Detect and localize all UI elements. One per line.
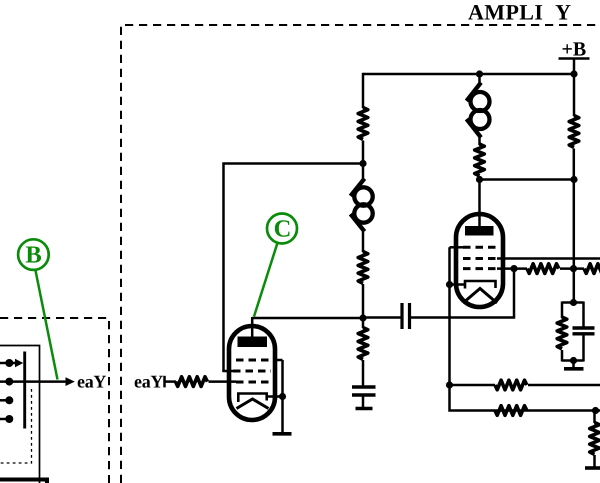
resistor R4 <box>475 144 485 176</box>
beam lead 1 with arrowhead <box>0 359 23 368</box>
wire node A to coupling cap C2 <box>363 316 401 319</box>
junction dot RC top <box>570 299 577 306</box>
V2 g1 lead right <box>497 267 527 270</box>
junction dot grid bias node <box>570 265 577 272</box>
wire C2 to V2 grid riser <box>411 269 514 318</box>
wire rail to L2 <box>478 74 481 85</box>
RC network top tee <box>562 301 584 304</box>
bottom-left solid box <box>0 480 47 483</box>
junction dot feedback row 1 <box>446 381 453 388</box>
top supply rail <box>363 73 574 76</box>
ground under RC <box>564 367 584 371</box>
C1 stub to ground <box>362 395 365 408</box>
+B stub to rail <box>573 59 576 75</box>
resistor R2 <box>358 252 368 284</box>
RC right branch upper stub <box>582 302 585 329</box>
input terminal tick <box>163 376 166 388</box>
V1 anode lead <box>251 317 254 337</box>
CRT inner dotted box <box>0 389 32 463</box>
V2 g2 lead right (off page) <box>497 257 600 260</box>
resistor R6 (cathode RC) <box>557 317 567 349</box>
wire resistor to V1 grid <box>209 380 237 383</box>
wire R11 to ground <box>593 455 596 467</box>
wire row 1 off page <box>528 384 600 387</box>
wire R4 to V2 anode <box>478 177 481 227</box>
wire L1 to R2 <box>362 230 365 253</box>
resistor R7 (grid bias left) <box>527 264 559 274</box>
callout circle B <box>18 239 49 270</box>
V2 cathode bar <box>465 281 496 289</box>
junction dot +B column / anode feed <box>570 176 577 183</box>
resistor R3 (to decoupling cap) <box>358 328 368 360</box>
V1 cathode lead right <box>267 395 283 398</box>
dashed amplifier boundary box (AMPLI Y) <box>121 25 600 483</box>
resistor R-grid (series input) <box>176 377 208 387</box>
capacitor C1 plates <box>352 387 376 395</box>
node dot pin 4 <box>5 415 13 423</box>
svg-text:C: C <box>274 216 292 243</box>
resistor R10 (row 2) <box>495 406 527 416</box>
output wire with arrow to eaY terminal <box>26 377 75 386</box>
inductor L2 (loop coil) <box>467 83 490 138</box>
junction dot g1/C2 riser <box>510 265 517 272</box>
+B terminal underline <box>559 57 590 60</box>
tube V1 envelope <box>229 326 275 420</box>
node dot pin 1 <box>5 359 13 367</box>
wire R7 to bias node <box>560 267 584 270</box>
V1 g3 lead right <box>274 359 283 362</box>
junction dot node A (V1 anode node) <box>359 314 366 321</box>
svg-text:eaY: eaY <box>77 372 106 392</box>
wire R3 to C1 <box>362 360 365 387</box>
resistor R5 (+B column) <box>569 116 579 148</box>
wire g3/cathode column down <box>450 247 600 410</box>
wire L2 to R4 <box>478 135 481 145</box>
wire feedback row 1 <box>450 384 496 387</box>
V2 anode plate <box>465 226 494 236</box>
junction dot rail right end <box>570 70 577 77</box>
V2 grid g2 (dashed) <box>463 257 497 260</box>
junction dot V2 cathode <box>446 281 453 288</box>
V1 g2 lead left <box>222 370 234 373</box>
V2 g3 lead left <box>450 246 465 249</box>
deflection plate bar <box>23 352 26 429</box>
V1 cathode bar <box>238 394 266 403</box>
beam lead 3 <box>0 399 9 402</box>
resistor R1 (left dropping) <box>358 108 368 140</box>
V1 anode plate <box>238 337 268 348</box>
wire rail to R1 <box>362 73 365 108</box>
V1 grid g1 (dashed) <box>236 381 271 384</box>
wire R2 to node A <box>362 284 365 328</box>
junction dot cathode V1 <box>279 393 286 400</box>
wire R11 stub <box>593 411 596 423</box>
V2 cathode chevron <box>463 289 497 304</box>
RC network bottom tee <box>562 359 584 362</box>
ground under C1 <box>356 407 373 411</box>
resistor R9 (row 1) <box>495 380 527 390</box>
wire R5 down to RC network <box>573 149 576 304</box>
wire R1 to L1 <box>362 141 365 182</box>
wire anode node to +B column <box>480 178 574 181</box>
resistor R11 (to ground, bottom right) <box>590 423 600 455</box>
RC stub to ground <box>572 361 575 368</box>
capacitor C3 plates <box>573 328 595 334</box>
RC right branch lower stub <box>582 334 585 362</box>
wire +B column down <box>573 74 576 116</box>
wire input to grid resistor <box>165 380 177 383</box>
svg-text:B: B <box>25 242 41 269</box>
CRT solid box <box>0 346 40 483</box>
junction dot RC bottom <box>570 357 577 364</box>
junction dot screen feed node <box>359 160 366 167</box>
callout circle C <box>267 214 297 244</box>
junction dot V2 anode node <box>476 176 483 183</box>
wire g3 to cathode to ground <box>281 360 284 433</box>
beam lead 2 (output tap) <box>0 380 25 383</box>
coupling capacitor C2 <box>402 303 410 329</box>
resistor R8 (grid bias right, clipped) <box>584 264 600 274</box>
inductor L1 (loop coil) <box>351 179 373 232</box>
V1 grid g3 (dashed) <box>236 359 276 362</box>
dashed oscilloscope boundary box (left) <box>0 318 109 483</box>
V2 cathode lead left <box>450 283 466 286</box>
junction dot row 2 right <box>592 407 599 414</box>
V1 grid g2 (dashed) <box>233 370 271 373</box>
callout leader line B <box>36 271 58 380</box>
wire V1 anode to node A <box>252 317 363 320</box>
node dot pin 2 <box>5 378 13 386</box>
RC left branch upper stub <box>561 302 564 319</box>
svg-text:AMPLI Y: AMPLI Y <box>468 0 571 25</box>
V2 grid g3 (dashed) <box>463 246 497 249</box>
ground bottom right <box>585 466 600 470</box>
wire screen feed (vertical + horizontal L) <box>224 164 364 372</box>
svg-text:eaY: eaY <box>134 372 163 392</box>
junction dot rail/L2 <box>476 70 483 77</box>
tube V2 envelope <box>456 214 503 307</box>
RC left branch lower stub <box>561 350 564 362</box>
callout leader line C <box>254 243 278 317</box>
ground under V1 <box>273 432 292 436</box>
V2 grid g1 (dashed) <box>463 267 497 270</box>
beam lead 4 <box>0 418 9 421</box>
node dot pin 3 <box>5 396 13 404</box>
V1 cathode chevron <box>237 399 269 409</box>
